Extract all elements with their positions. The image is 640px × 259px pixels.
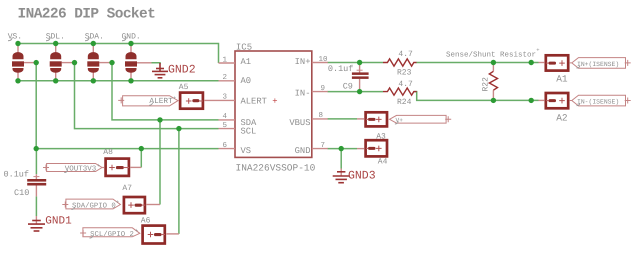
svg-text:A8: A8: [103, 148, 113, 157]
svg-text:C10: C10: [14, 188, 29, 198]
svg-text:+: +: [135, 227, 138, 234]
svg-text:A6: A6: [141, 217, 151, 226]
wire pin10 IN+ line to R23: [328, 62, 384, 64]
svg-text:4.7: 4.7: [398, 80, 413, 89]
svg-text:4: 4: [222, 113, 227, 121]
svg-text:IN-: IN-: [295, 89, 311, 99]
wire C10 to GND1: [35, 196, 37, 216]
svg-text:A0: A0: [241, 76, 252, 86]
flag V+: [390, 115, 452, 123]
IC right pin stubs 10,9,8,7: [312, 63, 328, 149]
svg-text:R23: R23: [397, 68, 412, 77]
svg-text:SDL.: SDL.: [46, 33, 65, 42]
svg-text:+: +: [173, 95, 176, 102]
jumper A5: [179, 83, 203, 109]
svg-text:+: +: [116, 199, 119, 206]
resistor R24: [383, 80, 417, 107]
wire R24 step down to A2: [414, 92, 539, 101]
label SDA: [85, 33, 104, 42]
svg-text:R22: R22: [482, 77, 491, 92]
svg-text:INA226 DIP Socket: INA226 DIP Socket: [18, 6, 156, 22]
wire A8 up to VS bus: [140, 149, 142, 168]
svg-text:IC5: IC5: [236, 42, 252, 52]
svg-text:GND: GND: [295, 146, 311, 156]
wire VS bus to pin6: [36, 148, 218, 150]
svg-text:SDA/GPIO 0: SDA/GPIO 0: [72, 201, 116, 210]
IC left pin stubs 1,2,3,4,5,6: [205, 63, 236, 149]
wire R23 to A1: [416, 62, 538, 64]
junction dots pad stubs: [34, 60, 115, 65]
wire SDA pad drop to pin4: [112, 63, 219, 120]
wire GND pad to GND2: [152, 63, 161, 64]
jumper A1: [539, 55, 569, 84]
junction dot GND3: [339, 146, 344, 151]
wire VS bus down to C10: [35, 149, 37, 175]
label SDL: [46, 33, 65, 42]
wire net VS top bus to pin1: [18, 44, 219, 64]
svg-text:A5: A5: [179, 83, 189, 92]
ground GND2: [152, 63, 168, 78]
wire VS pad drop to VS bus: [35, 63, 37, 149]
svg-text:A1: A1: [556, 74, 568, 85]
label VS: [8, 33, 22, 42]
svg-text:A1: A1: [241, 57, 252, 67]
svg-text:VBUS: VBUS: [289, 118, 310, 128]
svg-text:GND.: GND.: [122, 33, 141, 42]
svg-text:SDA.: SDA.: [85, 33, 104, 42]
jumper A2: [539, 93, 569, 123]
flag SCL/GPIO 2: [80, 227, 140, 239]
resistor R23: [383, 50, 417, 77]
label GND: [122, 33, 141, 42]
junction dot SCL branch: [176, 126, 181, 131]
svg-text:IN+: IN+: [295, 57, 311, 67]
junction dots bottom bus: [15, 78, 133, 83]
svg-text:A4: A4: [378, 158, 388, 167]
svg-text:+: +: [536, 47, 539, 54]
svg-text:VS.: VS.: [8, 33, 22, 42]
wire pin7 down to GND3: [340, 149, 342, 169]
svg-text:2: 2: [222, 73, 227, 82]
pad SCL: [50, 44, 75, 81]
svg-text:IN-(ISENSE): IN-(ISENSE): [577, 99, 619, 106]
svg-text:GND2: GND2: [168, 64, 196, 77]
svg-text:IN+(ISENSE): IN+(ISENSE): [577, 61, 619, 68]
ground GND3: [333, 169, 376, 183]
junction dot SDA branch: [157, 117, 162, 122]
wire net A0 bottom bus to pin2: [18, 80, 219, 82]
svg-text:ALERT: ALERT: [149, 97, 173, 106]
svg-text:5: 5: [222, 122, 227, 130]
flag IN+(ISENSE): [570, 58, 631, 69]
junction dots C9: [357, 60, 362, 95]
wire SDA branch down to A7: [159, 120, 161, 205]
text hooks: [64, 65, 580, 238]
IC5 INA226 box: [235, 51, 312, 157]
svg-text:9: 9: [321, 84, 326, 93]
svg-text:6: 6: [222, 141, 227, 150]
jumper A4: [357, 140, 388, 167]
flag ALERT: [118, 95, 178, 107]
wire pin9 IN- line to R24: [328, 91, 384, 93]
junction dots VS bus: [34, 146, 145, 151]
svg-text:ALERT +: ALERT +: [241, 97, 278, 107]
junction dots R22: [491, 60, 496, 103]
svg-text:4.7: 4.7: [398, 50, 413, 59]
wire pin7 GND to A4: [328, 148, 358, 150]
svg-text:A7: A7: [122, 184, 132, 193]
svg-text:GND1: GND1: [45, 215, 72, 227]
svg-text:Sense/Shunt Resistor: Sense/Shunt Resistor: [446, 50, 536, 59]
svg-text:3: 3: [222, 93, 227, 102]
svg-text:C9: C9: [343, 82, 353, 92]
ground GND1: [28, 215, 72, 231]
svg-text:V+: V+: [396, 117, 404, 124]
flag SDA/GPIO 0: [62, 199, 120, 211]
wire SCL branch down to A6: [178, 129, 180, 234]
jumper A8: [102, 148, 141, 176]
flag VOUT3V3: [43, 162, 102, 174]
svg-text:SCL/GPIO 2: SCL/GPIO 2: [90, 230, 134, 239]
svg-text:7: 7: [321, 142, 326, 150]
pad GND: [125, 44, 152, 81]
wire SCL pad drop to pin5: [75, 63, 219, 129]
junction dots top bus: [15, 41, 133, 46]
pad VS: [12, 44, 36, 81]
junction dots A1 A2: [529, 60, 534, 103]
svg-text:INA226VSSOP-10: INA226VSSOP-10: [236, 162, 316, 173]
svg-text:SCL: SCL: [241, 126, 257, 136]
jumper A6: [141, 217, 179, 244]
jumper A7: [122, 184, 160, 213]
svg-text:1: 1: [222, 56, 227, 64]
capacitor C9: [328, 63, 369, 92]
wire pin8 VBUS to A3: [328, 118, 358, 120]
svg-text:GND3: GND3: [348, 170, 376, 183]
svg-text:0.1uf: 0.1uf: [328, 64, 354, 74]
svg-text:R24: R24: [397, 98, 412, 107]
svg-text:8: 8: [319, 111, 324, 120]
svg-text:VOUT3V3: VOUT3V3: [65, 164, 97, 173]
svg-text:+: +: [97, 162, 100, 169]
capacitor C10: [4, 169, 47, 198]
resistor R22: [482, 63, 498, 101]
svg-text:0.1uf: 0.1uf: [4, 169, 30, 179]
svg-text:10: 10: [319, 55, 329, 64]
pad SDA: [87, 44, 112, 81]
svg-text:VS: VS: [241, 146, 252, 156]
svg-text:A2: A2: [556, 112, 568, 123]
jumper A3: [357, 112, 387, 141]
flag IN-(ISENSE): [570, 95, 631, 106]
